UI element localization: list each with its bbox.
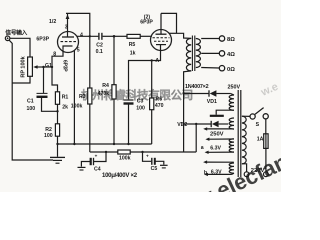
V2 screen tap [169, 32, 177, 34]
wire wiper to grid corner [44, 66, 53, 68]
V2 grids dashed [153, 37, 170, 39]
svg-text:5: 5 [77, 47, 80, 53]
svg-text:R5: R5 [129, 42, 136, 48]
node wiper junction [42, 66, 44, 68]
capacitor C3 100 [124, 99, 134, 101]
svg-text:100μ/400V ×2: 100μ/400V ×2 [102, 173, 138, 179]
T2 center tap ground [216, 110, 234, 115]
wire V1 cathode/grid path to R1 [52, 50, 63, 92]
node pin5 wire/rail A [73, 143, 75, 145]
svg-text:C2: C2 [96, 43, 103, 49]
capacitor C1 [43, 67, 45, 93]
svg-text:6.3V: 6.3V [211, 170, 222, 176]
T1 secondary [196, 39, 201, 68]
wire pin4 to node [77, 35, 98, 37]
svg-text:C3: C3 [137, 99, 144, 105]
T1 primary bottom lead to B+ [184, 71, 192, 152]
VD rail to B+ [195, 124, 197, 152]
svg-text:6P3P: 6P3P [62, 60, 68, 72]
V2 top rail to transformer [161, 13, 177, 33]
tap 8 ohm [201, 38, 219, 40]
T2 primary 220V winding [242, 116, 246, 164]
svg-text:1A: 1A [257, 136, 264, 142]
terminal 220V left [244, 172, 249, 177]
svg-text:1/2: 1/2 [49, 19, 56, 25]
node VD2/B+ riser [182, 123, 184, 125]
input jack J [5, 36, 10, 41]
svg-text:R1: R1 [62, 95, 69, 101]
node G1 [51, 66, 53, 68]
T2 winding 250V lower [229, 118, 234, 129]
svg-text:8Ω: 8Ω [227, 37, 235, 43]
svg-text:R3: R3 [79, 94, 86, 100]
svg-text:RP 100k: RP 100k [21, 55, 27, 77]
T2 core [237, 90, 239, 177]
svg-text:250V: 250V [210, 131, 224, 137]
resistor R4 470k [113, 36, 115, 84]
potentiometer RP 100k [28, 57, 33, 76]
resistor R6 470 [150, 98, 154, 110]
watermark red elecfans [191, 136, 319, 214]
T2 winding 6.3V b [229, 163, 234, 173]
wire RP bottom to left rail [12, 76, 30, 83]
svg-text:G1: G1 [45, 63, 52, 69]
ground C4 [78, 166, 86, 168]
svg-text:+: + [146, 153, 149, 158]
node C1/R1/R2 junction [56, 110, 58, 112]
resistor R3 100k [89, 36, 91, 88]
svg-text:信号输入: 信号输入 [5, 29, 27, 37]
svg-text:100: 100 [27, 106, 36, 112]
svg-text:C4: C4 [94, 167, 101, 173]
svg-text:100k: 100k [71, 104, 83, 110]
T2 winding 6.3V a [229, 139, 234, 152]
node plate/R3 junction [89, 35, 91, 37]
wire input to RP top [10, 38, 30, 57]
svg-text:470: 470 [155, 103, 164, 109]
capacitor C2 0.1 [98, 33, 100, 40]
wire R2 to ground [57, 136, 59, 157]
svg-text:2k: 2k [62, 104, 68, 110]
node C4 tap on rail B [105, 151, 107, 153]
svg-text:100: 100 [136, 106, 145, 112]
svg-text:a: a [201, 145, 204, 151]
wire pin5 to ground rail [73, 50, 75, 144]
RP wiper arrow [37, 66, 43, 68]
fuse 1A [265, 119, 267, 134]
svg-text:250V: 250V [228, 84, 241, 90]
svg-text:R6: R6 [156, 97, 163, 103]
tap 0 ohm [201, 67, 219, 70]
svg-text:+: + [95, 154, 98, 159]
svg-text:VD2: VD2 [177, 122, 187, 128]
V1 cathode [63, 46, 73, 50]
ground rail A [58, 143, 152, 145]
svg-text:6P3P: 6P3P [140, 19, 153, 25]
svg-text:0.1: 0.1 [96, 49, 103, 55]
wire R5 to V2 grid [140, 35, 152, 37]
resistor 100k filter [118, 150, 130, 154]
svg-text:R4: R4 [102, 83, 109, 89]
V1 grid (dashed) [61, 41, 77, 43]
V2 cathode net [129, 50, 161, 99]
node cathode/R6 junction [151, 59, 153, 61]
svg-text:C1: C1 [27, 99, 34, 105]
node VD2 cathode rail [195, 123, 197, 125]
output transformer T1 primary [186, 38, 191, 71]
capacitor C4 [94, 152, 106, 162]
wire winding top to switch [242, 115, 250, 117]
svg-text:b: b [204, 170, 207, 176]
tap 4 ohm [201, 52, 219, 54]
svg-text:S: S [256, 122, 260, 128]
svg-text:470k: 470k [98, 91, 110, 97]
svg-text:1k: 1k [130, 50, 136, 56]
capacitor C5 [143, 152, 152, 161]
diode VD2 [184, 123, 212, 125]
diode VD1 [184, 93, 209, 95]
svg-text:0Ω: 0Ω [227, 67, 235, 73]
svg-text:A: A [155, 58, 159, 64]
svg-text:C5: C5 [151, 166, 158, 172]
switch S [250, 114, 255, 119]
top rail V1 plate loop [66, 13, 90, 36]
T2 winding 250V upper [229, 95, 234, 110]
wire input ground lead [9, 40, 53, 160]
V2 cathode [156, 44, 166, 46]
lead 250V arrow [203, 127, 207, 130]
svg-text:VD1: VD1 [207, 99, 217, 105]
node C5 tap on rail B [141, 151, 143, 153]
svg-text:4: 4 [80, 33, 83, 39]
wire R1-R2 [57, 104, 59, 124]
resistor R5 1k [114, 35, 127, 37]
wire winding bottom to terminal [242, 164, 247, 172]
svg-text:6P3P: 6P3P [36, 37, 49, 43]
node R4/rail A [113, 143, 115, 145]
T1 core [191, 36, 193, 72]
svg-text:100: 100 [44, 133, 53, 139]
terminal 220V right [264, 172, 269, 177]
node VD1/B+ riser [182, 92, 184, 94]
resistor R2 100 [55, 124, 59, 136]
ground main [50, 156, 65, 158]
B+ rail B [90, 151, 118, 153]
V2 plate [160, 13, 162, 34]
svg-text:4Ω: 4Ω [227, 52, 235, 58]
svg-text:3: 3 [65, 24, 68, 30]
svg-text:6.3V: 6.3V [210, 145, 221, 151]
resistor R1 2k [55, 92, 59, 105]
svg-text:100k: 100k [119, 155, 131, 161]
node C3/rail A [127, 143, 129, 145]
svg-text:1N4007×2: 1N4007×2 [185, 84, 209, 90]
node R2/rail A [56, 143, 58, 145]
node C2/R4/R5 [113, 35, 116, 38]
V1 plate [67, 13, 69, 37]
